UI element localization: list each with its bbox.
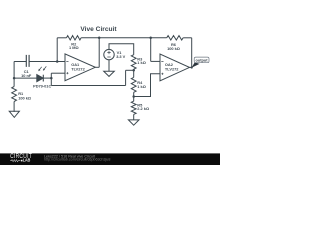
capacitor C1 — [26, 55, 29, 67]
resistor R1 — [12, 87, 17, 102]
junction R4-R5 divider node — [132, 95, 135, 98]
wire OA2 output — [190, 66, 192, 68]
wire bottom rail up segment — [125, 70, 127, 85]
svg-text:1 kΩ: 1 kΩ — [137, 60, 146, 65]
small component labels (scaled 0.5 for sub-6px text) — [18, 42, 208, 111]
wire R1 to ground — [13, 102, 15, 112]
resistor R2 — [67, 36, 82, 40]
wire left vertical — [13, 62, 15, 87]
wire bottom rail — [51, 85, 125, 87]
resistor R5 — [131, 101, 136, 114]
photodiode light arrows — [39, 66, 46, 69]
node output flag box — [194, 57, 209, 63]
svg-text:output: output — [195, 57, 208, 62]
wire photodiode cathode lead — [43, 77, 51, 79]
wire photodiode anode lead — [14, 77, 37, 79]
wire top rail right segment — [183, 37, 192, 39]
junction R3-R4 divider node — [132, 69, 135, 72]
resistor R4 — [131, 77, 136, 92]
svg-text:TLV272: TLV272 — [165, 67, 179, 72]
op-amp OA1 — [65, 54, 95, 81]
wire vertical at diode node — [50, 73, 52, 85]
svg-text:LAB: LAB — [23, 157, 31, 163]
ground under V1 — [104, 71, 115, 76]
wire noninverting input of OA1 — [51, 72, 65, 74]
junction photodiode cathode / OA1 noninverting node — [50, 77, 53, 80]
wire R4 stems — [133, 70, 135, 96]
svg-text:http://circuitlab.com/circuit/: http://circuitlab.com/circuit/c6pb63ch3j… — [44, 158, 110, 162]
CircuitLab logo wordmark — [10, 154, 32, 163]
wire OA1 output — [95, 66, 99, 68]
wire R6 right vertical — [191, 38, 193, 68]
ground under R5 — [128, 120, 139, 125]
svg-text:1 MΩ: 1 MΩ — [69, 45, 79, 50]
resistor R6 — [167, 36, 183, 40]
svg-text:100 kΩ: 100 kΩ — [167, 46, 180, 51]
wire C1 left lead — [14, 61, 26, 63]
wire top rail middle segment — [81, 37, 167, 39]
svg-text:1 kΩ: 1 kΩ — [137, 84, 146, 89]
junction OA1 output node on top rail — [98, 37, 101, 40]
svg-text:PD79-01C: PD79-01C — [33, 84, 51, 89]
wire R4-R5 junction to OA2 noninverting input — [134, 74, 160, 97]
wire C1 right lead to OA1 inverting input — [29, 61, 65, 63]
ground under R1 — [9, 111, 19, 117]
wire V1 bottom lead — [108, 60, 110, 71]
svg-text:TLV272: TLV272 — [71, 67, 85, 72]
wire OA1 output vertical — [98, 38, 100, 68]
wire R3 bottom stem — [133, 69, 135, 70]
svg-text:100 kΩ: 100 kΩ — [18, 95, 31, 100]
junction R1 top / photodiode anode node — [13, 77, 16, 80]
wire V1 top lead — [109, 44, 134, 55]
wire OA2 inverting input horizontal — [151, 60, 160, 62]
wire to R3-R4 junction — [126, 69, 134, 71]
svg-text:2.2 kΩ: 2.2 kΩ — [137, 106, 149, 111]
photodiode D1 PD79-01C — [37, 75, 43, 82]
voltage source V1 — [104, 49, 114, 59]
svg-text:10 nF: 10 nF — [21, 73, 32, 78]
footer caption text — [44, 155, 110, 162]
svg-text:Vive Circuit: Vive Circuit — [80, 26, 117, 33]
wire feedback left vertical — [56, 38, 58, 62]
resistor R3 — [131, 55, 136, 69]
wire OA2 inverting input vertical — [150, 38, 152, 62]
logo resistor squiggle — [10, 160, 20, 162]
junction OA2 inverting node on top rail — [149, 37, 152, 40]
wire top rail left segment — [57, 37, 66, 39]
op-amp OA2 — [160, 54, 190, 81]
footer bar — [0, 153, 220, 165]
wire R5 stems — [133, 97, 135, 120]
node output flag pointer — [192, 62, 200, 67]
junction C1 / R2 / OA1 inverting input node — [56, 60, 59, 63]
junction output node — [191, 66, 193, 68]
svg-text:3.3 V: 3.3 V — [116, 54, 125, 59]
